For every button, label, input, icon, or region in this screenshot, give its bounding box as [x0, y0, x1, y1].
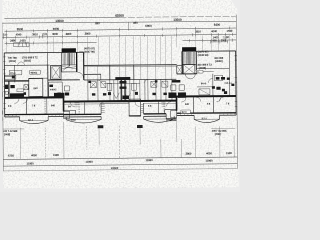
left unit bedroom box — [29, 79, 43, 97]
note text bottom-left — [3, 128, 24, 130]
mid-left exterior stair box — [64, 111, 70, 118]
service cluster dark mass left — [49, 84, 69, 97]
right unit bath fixtures — [212, 77, 235, 91]
svg-text:[4948]: [4948] — [215, 59, 222, 63]
dimension line L5 right segment — [183, 39, 237, 42]
bottom scanner margin — [0, 188, 240, 192]
svg-text:B7-0: B7-0 — [182, 111, 188, 114]
overall dimension line L1 right faded — [119, 16, 235, 17]
balcony right outer — [194, 115, 220, 123]
outer wall right — [235, 51, 238, 115]
svg-text:(2040 98): (2040 98) — [198, 53, 209, 57]
dimension line L3 — [4, 28, 236, 31]
facade wall recessed middle inner line — [84, 65, 177, 68]
alcove ladder ticks right — [141, 105, 143, 113]
entry corridor wall — [84, 73, 101, 75]
stair core left: stairwell — [48, 52, 84, 78]
facade wall recessed middle — [84, 64, 177, 67]
svg-text:2810: 2810 — [195, 29, 201, 33]
band label box right — [181, 110, 190, 113]
svg-text:93001: 93001 — [31, 72, 38, 75]
right core entry arc — [185, 74, 195, 79]
party wall center pair — [120, 80, 122, 101]
note text block middle — [79, 50, 83, 52]
svg-text:4040: 4040 — [16, 32, 22, 36]
svg-text:4050: 4050 — [206, 151, 212, 155]
svg-text:900: 900 — [213, 38, 218, 42]
svg-text:B7-1: B7-1 — [28, 119, 34, 122]
folded corner gray wedge top-right — [231, 0, 240, 13]
balcony mid-right — [144, 116, 175, 122]
room label specks — [8, 102, 230, 108]
witness lines from plan to bottom dims — [20, 121, 234, 161]
protruding bay lower right of mid zone — [166, 114, 177, 121]
outer wall left — [3, 53, 6, 117]
mid-left shelf dashes — [75, 101, 79, 107]
svg-text:1430: 1430 — [20, 38, 26, 42]
lower bedroom partitions right unit — [181, 97, 221, 113]
bottom dimension line B3 — [3, 169, 237, 171]
facade step connector / entry wall — [83, 52, 85, 80]
mid-right exterior stair box — [171, 111, 177, 118]
svg-text:11960: 11960 — [145, 158, 153, 162]
bottom dimension line B2 — [3, 164, 237, 166]
rooms top inner line mid-right — [144, 102, 177, 104]
svg-text:890: 890 — [133, 21, 138, 25]
svg-text:2980: 2980 — [10, 39, 16, 43]
left unit bathroom cluster — [4, 75, 28, 98]
stair core right: black cap — [182, 47, 196, 51]
planter blob mid-right — [137, 125, 143, 128]
svg-text:840: 840 — [33, 86, 38, 90]
svg-text:(4047 98): (4047 98) — [84, 50, 95, 54]
window sill band outer left — [5, 114, 64, 117]
svg-text:#10 4.1: #10 4.1 — [224, 82, 232, 85]
note text bottom-right — [211, 127, 235, 129]
right unit lobby label box — [195, 70, 203, 73]
svg-text:2860: 2860 — [185, 152, 191, 156]
central alcove side walls — [100, 103, 102, 114]
svg-text:8400: 8400 — [214, 23, 221, 27]
svg-text:6900: 6900 — [145, 24, 152, 28]
grid lines dropping from dims to plan — [6, 30, 229, 66]
svg-text:13500: 13500 — [173, 18, 182, 22]
spine wall left segment — [5, 96, 64, 98]
svg-text:4050: 4050 — [31, 153, 37, 157]
balcony left outer — [20, 117, 49, 124]
svg-text:2800: 2800 — [66, 32, 72, 36]
svg-text:[4948]: [4948] — [199, 66, 206, 70]
svg-text:6750: 6750 — [8, 154, 14, 158]
svg-text:[4016]: [4016] — [24, 59, 31, 63]
mid-left inner room wall — [64, 109, 76, 111]
svg-text:11960: 11960 — [26, 162, 34, 166]
middle band fixture blobs — [88, 77, 167, 96]
paper sheet — [2, 0, 239, 189]
stair winder fan — [62, 66, 76, 69]
svg-text:4040: 4040 — [211, 29, 217, 33]
svg-text:[4016]: [4016] — [9, 59, 16, 63]
window sill band outer right — [177, 113, 237, 116]
left scanner margin — [0, 0, 2, 192]
wall left of elevator — [47, 53, 49, 66]
scan noise — [2, 0, 239, 189]
service cluster dark mass right — [168, 80, 186, 98]
middle band partitions — [88, 79, 172, 101]
unit entry door arc — [77, 72, 83, 78]
svg-text:3000: 3000 — [52, 32, 58, 36]
middle zone verticals facade to rooms — [88, 65, 172, 80]
planter blob mid-left — [98, 125, 104, 128]
witness mid column — [127, 22, 129, 30]
svg-text:9?+0: 9?+0 — [10, 72, 16, 75]
rooms top inner line mid-left — [64, 103, 101, 105]
window sill band inner right — [144, 114, 167, 117]
svg-text:8010: 8010 — [71, 119, 77, 122]
spine wall right segment — [176, 95, 235, 97]
spine wall jog posts — [62, 96, 64, 111]
right unit hall east wall — [229, 51, 231, 68]
svg-text:8500: 8500 — [17, 27, 24, 31]
svg-text:3910: 3910 — [32, 32, 38, 36]
right unit bedroom door arcs — [196, 97, 200, 101]
dimension line L5 left segment — [5, 42, 97, 45]
elevator right — [183, 64, 195, 73]
facade wall top right unit — [196, 50, 235, 52]
stair core left: black cap — [62, 48, 76, 52]
window ticks on outer walls — [3, 55, 237, 108]
svg-text:13500: 13500 — [55, 19, 64, 23]
svg-text:890: 890 — [95, 21, 100, 25]
svg-text:2800: 2800 — [85, 32, 91, 36]
top-left bay window outline — [14, 43, 30, 47]
dimension witness ticks rows — [3, 27, 232, 45]
wall under left core — [48, 79, 80, 81]
right scanner margin — [239, 0, 240, 192]
wall under right core — [177, 73, 197, 75]
top-right bay dimension — [211, 40, 228, 44]
stair core right: stairwell — [182, 51, 196, 74]
alcove ladder ticks left — [101, 105, 104, 113]
scanner background — [0, 0, 240, 192]
sheet frame right edge — [236, 15, 237, 169]
lower bedroom partitions left unit — [14, 98, 47, 114]
svg-text:43500: 43500 — [115, 14, 124, 18]
svg-text:43500: 43500 — [111, 166, 119, 170]
svg-text:#40#2: #40#2 — [50, 88, 57, 91]
left unit labeled boxes row — [9, 70, 40, 75]
B2 labels — [26, 158, 213, 166]
svg-text:1590: 1590 — [226, 151, 232, 155]
mid-right shelf dashes — [162, 100, 166, 106]
shaft box right of middle facade — [177, 66, 183, 74]
svg-text:B7-2: B7-2 — [202, 117, 208, 120]
svg-text:40+-: 40+- — [195, 71, 200, 74]
mid-right inner room wall — [165, 109, 177, 111]
spine wall middle segment — [64, 100, 177, 103]
dimension line L4 — [2, 34, 236, 37]
svg-text:2000: 2000 — [221, 38, 227, 42]
facade wall top left unit — [4, 51, 236, 117]
overall dimension line L1 — [4, 16, 119, 19]
protruding room in alcove — [129, 99, 141, 116]
svg-text:[668]: [668] — [4, 132, 10, 136]
middle band wc boxes — [90, 79, 168, 98]
svg-text:1590: 1590 — [227, 29, 233, 33]
dimension line L2 — [2, 21, 236, 23]
elevator left — [51, 65, 62, 79]
left unit storage room — [49, 82, 63, 97]
svg-text:1590: 1590 — [53, 153, 59, 157]
svg-text:84+0: 84+0 — [201, 82, 207, 85]
balcony mid-left — [66, 117, 101, 123]
lower bedroom partitions middle — [71, 101, 172, 115]
B1 labels — [8, 151, 232, 158]
left unit interior wall with door arcs — [4, 62, 50, 98]
stair core left: thick east wall — [76, 52, 78, 71]
scan edge blobs left margin — [0, 78, 3, 121]
svg-text:11960: 11960 — [205, 159, 213, 163]
middle band rooms upper wall — [84, 78, 176, 81]
svg-text:11960: 11960 — [85, 160, 93, 164]
right core lobby walls — [197, 67, 229, 69]
svg-text:6900: 6900 — [53, 27, 60, 31]
sheet frame left edge — [2, 22, 3, 170]
window sill band inner left — [64, 114, 102, 117]
right unit hall rooms — [197, 72, 230, 97]
bottom dimension line B1 — [3, 157, 237, 159]
central alcove rear wall — [101, 102, 129, 104]
